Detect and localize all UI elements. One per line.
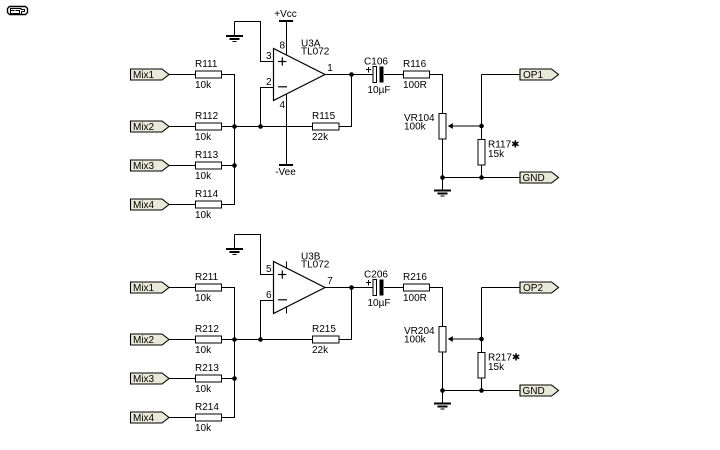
power +Vcc	[274, 9, 297, 22]
wire	[222, 417, 236, 419]
node GND	[520, 385, 559, 397]
ground	[442, 178, 444, 191]
svg-text:Mix3: Mix3	[133, 374, 155, 385]
svg-text:2: 2	[266, 77, 272, 88]
node Mix3	[131, 373, 170, 385]
wire	[169, 126, 196, 128]
svg-text:4: 4	[279, 100, 285, 111]
svg-text:100k: 100k	[404, 122, 427, 133]
wire	[169, 417, 196, 419]
wire	[222, 126, 236, 128]
node OP1	[520, 69, 559, 81]
wire	[481, 378, 483, 391]
svg-text:R113: R113	[195, 150, 219, 161]
svg-text:Mix4: Mix4	[133, 200, 155, 211]
svg-text:10k: 10k	[195, 80, 212, 91]
wire	[235, 126, 313, 128]
node Mix2	[131, 121, 170, 133]
svg-text:10k: 10k	[195, 171, 212, 182]
svg-text:22k: 22k	[312, 345, 329, 356]
ground	[442, 391, 444, 404]
svg-text:R116: R116	[403, 59, 427, 70]
wire	[222, 165, 236, 167]
resistor R216	[403, 272, 430, 304]
wire	[260, 301, 262, 340]
svg-text:10k: 10k	[195, 423, 212, 434]
resistor R112	[195, 111, 222, 143]
wire	[351, 75, 353, 127]
svg-text:1: 1	[327, 63, 333, 74]
junction	[479, 175, 484, 180]
svg-text:R211: R211	[195, 272, 219, 283]
wire	[169, 378, 196, 380]
svg-text:R112: R112	[195, 111, 219, 122]
node OP2	[520, 282, 559, 294]
wire	[222, 74, 236, 76]
node Mix4	[131, 412, 170, 424]
wire	[260, 274, 274, 276]
wire	[286, 94, 288, 165]
capacitor C106	[364, 56, 390, 96]
junction	[479, 124, 484, 129]
svg-text:R216: R216	[403, 272, 427, 283]
node Mix1	[131, 282, 170, 294]
wire	[260, 88, 262, 127]
svg-text:GND: GND	[523, 173, 545, 184]
junction	[440, 388, 445, 393]
svg-text:15k: 15k	[488, 362, 505, 373]
wire	[260, 61, 274, 63]
svg-text:+Vcc: +Vcc	[274, 9, 297, 20]
op-amp U3B	[274, 252, 330, 314]
wire	[260, 22, 262, 62]
node Mix3	[131, 160, 170, 172]
resistor R213	[195, 363, 222, 395]
svg-text:R114: R114	[195, 189, 219, 200]
node Mix1	[131, 69, 170, 81]
svg-text:10k: 10k	[195, 132, 212, 143]
svg-text:R115: R115	[312, 111, 336, 122]
svg-text:5: 5	[266, 264, 272, 275]
resistor R116	[403, 59, 430, 91]
svg-text:Mix4: Mix4	[133, 413, 155, 424]
svg-text:R213: R213	[195, 363, 219, 374]
capacitor C206	[364, 269, 390, 309]
wire	[481, 165, 483, 178]
junction	[479, 388, 484, 393]
svg-text:10µF: 10µF	[368, 298, 391, 309]
node Mix4	[131, 199, 170, 211]
wire	[481, 75, 483, 127]
svg-text:10k: 10k	[195, 345, 212, 356]
wire	[169, 204, 196, 206]
wire	[442, 288, 444, 327]
svg-text:Mix1: Mix1	[133, 70, 155, 81]
resistor R115	[312, 111, 339, 143]
wire	[260, 235, 262, 275]
svg-text:R212: R212	[195, 324, 219, 335]
svg-text:100R: 100R	[403, 80, 427, 91]
junction	[232, 163, 237, 168]
svg-text:10k: 10k	[195, 210, 212, 221]
wire	[235, 339, 313, 341]
wire	[481, 339, 483, 353]
svg-text:10k: 10k	[195, 293, 212, 304]
svg-text:6: 6	[266, 290, 272, 301]
ground	[234, 235, 236, 249]
wire	[234, 288, 236, 418]
wire	[442, 139, 444, 178]
resistor R113	[195, 150, 222, 182]
junction	[440, 175, 445, 180]
wire	[169, 339, 196, 341]
svg-text:100k: 100k	[404, 335, 427, 346]
wire	[222, 287, 236, 289]
op-amp U3A	[274, 39, 330, 101]
svg-text:100R: 100R	[403, 293, 427, 304]
wire	[481, 288, 483, 340]
wire	[169, 74, 196, 76]
potentiometer VR104	[404, 113, 482, 139]
svg-text:Mix2: Mix2	[133, 122, 155, 133]
junction	[232, 376, 237, 381]
wire	[351, 288, 353, 340]
svg-text:TL072: TL072	[301, 47, 330, 58]
svg-text:7: 7	[327, 276, 333, 287]
wire	[442, 75, 444, 114]
resistor R211	[195, 272, 222, 304]
wire	[430, 287, 444, 289]
wire	[384, 74, 404, 76]
svg-text:10k: 10k	[195, 384, 212, 395]
resistor R212	[195, 324, 222, 356]
wire	[234, 75, 236, 205]
wire	[169, 165, 196, 167]
wire	[222, 378, 236, 380]
wire	[482, 287, 521, 289]
resistor R214	[195, 402, 222, 434]
svg-text:OP1: OP1	[523, 70, 543, 81]
wire	[443, 390, 521, 392]
svg-text:C106: C106	[364, 56, 388, 67]
wire	[286, 262, 288, 269]
ground	[234, 22, 236, 36]
wire	[339, 339, 352, 341]
svg-text:Mix2: Mix2	[133, 335, 155, 346]
junction	[258, 337, 263, 342]
resistor R215	[312, 324, 339, 356]
power -Vee	[275, 164, 296, 178]
svg-text:Mix3: Mix3	[133, 161, 155, 172]
wire	[325, 74, 373, 76]
junction	[349, 72, 354, 77]
svg-text:10µF: 10µF	[368, 85, 391, 96]
wire	[325, 287, 373, 289]
wire	[169, 287, 196, 289]
wire	[286, 21, 288, 56]
svg-text:22k: 22k	[312, 132, 329, 143]
wire	[442, 352, 444, 391]
wire	[222, 204, 236, 206]
svg-text:15k: 15k	[488, 149, 505, 160]
junction	[258, 124, 263, 129]
resistor R217	[478, 353, 520, 379]
svg-text:R111: R111	[195, 59, 218, 70]
junction	[349, 285, 354, 290]
wire	[430, 74, 444, 76]
svg-text:OP2: OP2	[523, 283, 543, 294]
svg-text:Mix1: Mix1	[133, 283, 155, 294]
svg-text:-Vee: -Vee	[275, 167, 296, 178]
node Mix2	[131, 334, 170, 346]
logo ESP	[8, 7, 28, 16]
wire	[222, 339, 236, 341]
svg-text:C206: C206	[364, 269, 388, 280]
wire	[260, 87, 274, 89]
potentiometer VR204	[404, 326, 482, 352]
wire	[481, 126, 483, 140]
wire	[443, 177, 521, 179]
wire	[482, 74, 521, 76]
junction	[232, 337, 237, 342]
svg-text:GND: GND	[523, 386, 545, 397]
resistor R114	[195, 189, 222, 221]
junction	[232, 124, 237, 129]
wire	[235, 234, 262, 236]
wire	[286, 307, 288, 314]
node GND	[520, 172, 559, 184]
wire	[260, 300, 274, 302]
svg-text:8: 8	[279, 41, 285, 52]
resistor R117	[478, 140, 520, 166]
junction	[479, 337, 484, 342]
svg-text:R215: R215	[312, 324, 336, 335]
wire	[384, 287, 404, 289]
resistor R111	[195, 59, 222, 91]
svg-text:3: 3	[266, 51, 272, 62]
wire	[235, 21, 262, 23]
svg-text:R214: R214	[195, 402, 219, 413]
wire	[339, 126, 352, 128]
svg-text:TL072: TL072	[301, 260, 330, 271]
